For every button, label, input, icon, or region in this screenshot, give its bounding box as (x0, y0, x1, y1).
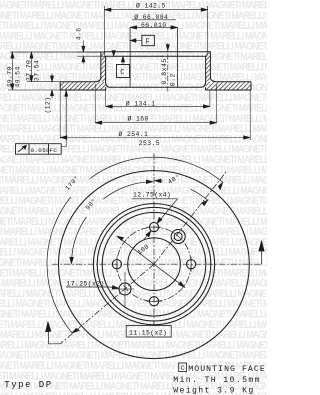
circle Ø134.1 (102, 212, 206, 316)
far-side rim top edge (104, 51, 205, 53)
friction ring bottom left (60, 89, 105, 91)
vertical centerline (153, 154, 155, 326)
svg-text:17.25(x2): 17.25(x2) (67, 281, 105, 288)
fillet hat wall to ring right outer (210, 77, 216, 82)
hole NE double (171, 230, 185, 244)
ring outer edge left (59, 82, 61, 90)
datum C box with leader (117, 65, 130, 78)
svg-text:4.6: 4.6 (76, 28, 83, 41)
svg-text:Ø 142.5: Ø 142.5 (136, 2, 166, 10)
dim arc 40 (191, 189, 208, 200)
dim Ø134.1 (106, 105, 210, 107)
rotation arrow right (261, 244, 263, 265)
svg-text:66.010: 66.010 (141, 22, 167, 29)
svg-text:Ø 160: Ø 160 (128, 115, 149, 123)
svg-text:Ø 254.1: Ø 254.1 (119, 130, 149, 138)
hole tick E (190, 257, 192, 272)
svg-text:37.54: 37.54 (33, 60, 40, 81)
bolt hole S (149, 297, 158, 306)
C box footer (179, 363, 187, 372)
friction ring bottom right (206, 89, 252, 91)
circle Ø142.5 (97, 207, 211, 321)
svg-text:11.15(x2): 11.15(x2) (129, 329, 167, 336)
svg-text:MOUNTING FACE: MOUNTING FACE (188, 365, 266, 374)
dim Ø160 (95, 122, 216, 124)
runout tolerance frame (16, 144, 62, 155)
friction ring top right (217, 81, 251, 83)
bolt hole E (187, 260, 196, 269)
svg-text:12.75(x4): 12.75(x4) (133, 191, 171, 198)
svg-text:0.2: 0.2 (170, 73, 177, 86)
footer (4, 363, 266, 395)
bore wall left (129, 27, 131, 87)
svg-text:49.54: 49.54 (14, 66, 21, 87)
hatching left ring (60, 52, 251, 90)
dim Ø142.5 (104, 9, 207, 11)
leader 12.75 (158, 199, 177, 222)
fillet wall inner to underside left (106, 82, 110, 87)
hole tick N (147, 226, 162, 228)
svg-text:C: C (181, 365, 185, 373)
fillet hat wall to ring left outer (95, 77, 101, 82)
hole tick W (116, 257, 118, 272)
outer circle (58, 171, 249, 359)
hat underside / inner mounting line (110, 86, 201, 88)
svg-text:Ø 134.1: Ø 134.1 (126, 99, 156, 107)
friction ring top left (60, 81, 95, 83)
hat wall inner left (105, 56, 107, 82)
bolt hole N (149, 223, 158, 232)
svg-text:0.050: 0.050 (31, 147, 51, 154)
dim (12) arrows (51, 74, 53, 82)
svg-text:49.70: 49.70 (6, 66, 13, 87)
svg-text:FC: FC (50, 147, 58, 154)
dim Ø254.1 / 253.5 (60, 137, 250, 139)
hole SW 17.25 (119, 283, 131, 295)
svg-text:37.70: 37.70 (25, 60, 32, 81)
dim arc 90 (103, 182, 152, 199)
SW axis 220deg (60, 264, 154, 344)
ring bottom extension to left (8, 89, 60, 91)
ring outer edge right (250, 82, 252, 90)
mounting face (recess) surface (104, 55, 206, 57)
leader 17.25 (66, 286, 111, 288)
svg-text:F: F (146, 39, 151, 47)
leader 100 (117, 236, 185, 287)
svg-text:253.5: 253.5 (139, 140, 160, 147)
svg-text:0.8x45°: 0.8x45° (160, 54, 168, 85)
bolt hole centerline in section (167, 43, 169, 92)
svg-text:(12): (12) (44, 96, 51, 113)
ring inner step right (205, 87, 207, 90)
fillet wall inner to underside right (201, 82, 206, 87)
bolt circle (dash-dot) (117, 227, 191, 301)
extra arrowhead on mounting face (112, 51, 116, 56)
hat wall outer right (209, 52, 211, 77)
circle Ø160 (93, 204, 214, 325)
bore circle (128, 238, 181, 291)
rotation arrow left bottom (49, 324, 61, 344)
dim arc 170 (90, 157, 223, 182)
svg-text:Weight 3.9 Kg: Weight 3.9 Kg (173, 385, 254, 395)
horizontal centerline (52, 263, 262, 265)
label box 11.15 (126, 326, 171, 338)
ring top extension to left (27, 81, 60, 83)
dim Ø66.084/66.010 (132, 19, 176, 21)
hat wall inner right (205, 56, 207, 82)
bolt hole W (112, 260, 121, 269)
svg-text:C: C (120, 69, 125, 77)
hat rim top left (101, 51, 105, 53)
hat rim top right (206, 51, 211, 53)
ring inner step left (105, 87, 107, 90)
wire brim/top extension line (10, 51, 101, 53)
leader from frame to extension (61, 141, 66, 146)
svg-text:Min. TH 10.5mm: Min. TH 10.5mm (173, 375, 261, 385)
datum F box (142, 35, 155, 45)
dim 4.6 (77, 51, 101, 53)
svg-text:Type DP: Type DP (4, 380, 52, 390)
hole tick S (147, 300, 162, 302)
dim 37.70/37.54 (31, 52, 33, 82)
dim 49.70/49.54 (11, 52, 13, 90)
bore wall right (177, 27, 179, 87)
hat wall outer left (100, 52, 102, 77)
svg-text:Ø 66.084: Ø 66.084 (134, 13, 168, 21)
bottom extension lines (59, 90, 61, 139)
NE axis 50deg (154, 171, 227, 264)
